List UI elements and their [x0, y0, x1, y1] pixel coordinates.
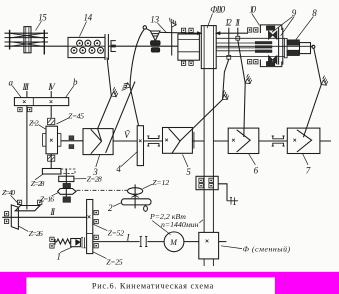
pointer Z45	[56, 118, 69, 124]
variator row axis segments	[113, 140, 331, 142]
svg-text:11: 11	[235, 17, 241, 27]
svg-text:III: III	[22, 82, 30, 92]
svg-text:1: 1	[57, 251, 62, 261]
pointer 1	[60, 247, 72, 252]
variator box 6	[228, 128, 259, 153]
worm gearbox on shaft IV	[46, 126, 58, 154]
belt from cone 13 down to drum 4	[130, 29, 144, 126]
cone pulley lower block	[151, 41, 160, 45]
pointer Z12	[143, 184, 153, 189]
pointer 8	[295, 17, 313, 41]
shaft I coupling	[140, 237, 148, 247]
collar on shaft after box 5	[193, 132, 195, 149]
chuck side stub	[219, 241, 227, 243]
clutch housing 10 bottom	[260, 60, 281, 67]
svg-text:Z=25: Z=25	[106, 257, 122, 266]
gear pair bar on shafts III and IV	[14, 98, 68, 106]
pointer to label 6	[249, 154, 256, 165]
pointer 13	[158, 23, 167, 33]
anchor pivot A1	[108, 87, 119, 98]
sliding gear Z=28 on shaft IV	[42, 169, 61, 175]
tension block below wire	[151, 48, 159, 52]
pointer 10	[252, 14, 260, 26]
svg-text:Z=2: Z=2	[29, 119, 39, 128]
clutch housing 10 top	[260, 25, 281, 33]
variator box 5	[163, 128, 193, 154]
pointer 2	[113, 203, 122, 207]
bearings right of double gear	[94, 210, 98, 214]
svg-text:Z=28: Z=28	[87, 174, 102, 183]
pointer 14	[80, 22, 87, 37]
pointer a	[12, 86, 21, 98]
belt line cone to pulley F110	[160, 31, 248, 34]
claw coupling 6-7	[272, 136, 285, 146]
shaft IV stub above	[50, 91, 52, 98]
pointer to label 5	[183, 154, 189, 167]
motor line to spindle	[184, 241, 199, 243]
cone pulley 13	[146, 29, 151, 32]
brake rod from bracket	[218, 184, 227, 201]
friction device 1 spring	[55, 239, 71, 245]
spindle below chuck	[204, 259, 213, 266]
gear Z=28 lower	[59, 176, 74, 181]
svg-text:a: a	[9, 78, 14, 88]
straightener roller right	[43, 30, 45, 55]
pointer Z16	[52, 192, 59, 196]
sprocket Z=16	[58, 189, 77, 195]
svg-text:10: 10	[249, 4, 256, 14]
shaft III vertical	[26, 106, 28, 210]
cone disc upper 9	[268, 31, 277, 40]
clutch shaft lines	[216, 38, 313, 56]
variator control lever of box 3	[106, 82, 135, 153]
svg-text:13: 13	[150, 14, 159, 24]
svg-text:Рис.6. Кинематическая схема: Рис.6. Кинематическая схема	[92, 282, 214, 291]
pointer Z28 right	[74, 178, 86, 180]
svg-text:IV: IV	[47, 82, 56, 92]
link roller box to variator 3	[98, 58, 112, 142]
worm Z=2 upper	[48, 118, 55, 124]
pointer Z2	[38, 125, 46, 130]
pointer to label 7	[303, 154, 309, 165]
brake screw symbol	[227, 197, 238, 204]
pointer b	[66, 85, 75, 97]
svg-text:b: b	[73, 77, 78, 87]
svg-text:Z=52: Z=52	[108, 228, 124, 237]
block under sprocket	[63, 197, 71, 203]
svg-text:12: 12	[225, 17, 232, 27]
clutch 8 end bar	[285, 38, 288, 57]
shaft II	[2, 216, 86, 218]
double gear Z=52 / Z=25	[87, 200, 93, 254]
feed drum 4	[137, 126, 143, 166]
pressure plate pins	[81, 237, 86, 248]
bevel mesh cross	[131, 194, 138, 198]
outlet clamp bottom	[111, 47, 116, 52]
friction device 1 block	[71, 239, 81, 247]
outlet clamp top	[111, 41, 116, 46]
svg-text:Z=40: Z=40	[2, 188, 15, 197]
gearbox side tabs	[43, 134, 46, 147]
svg-text:II: II	[49, 207, 56, 217]
handwheel 2	[121, 199, 151, 205]
bearings under bar	[18, 107, 22, 111]
svg-text:Z=45: Z=45	[68, 111, 84, 120]
clutch 8 sleeve	[300, 43, 311, 54]
shaft III stub above	[26, 91, 28, 98]
spindle head housing	[178, 34, 200, 60]
chain axis dash-dot	[77, 189, 128, 191]
clutch 8 spring bottom	[287, 50, 299, 55]
svg-text:5: 5	[186, 167, 191, 177]
roller feed box 14	[68, 37, 105, 57]
pointer Z28 left	[35, 174, 43, 180]
feed rollers top row	[77, 40, 101, 46]
layshaft coupling block	[63, 183, 71, 188]
pulley F110	[201, 26, 216, 69]
caption magenta band	[0, 272, 339, 294]
shaft IV vertical	[50, 106, 52, 118]
shifter rod 11	[237, 28, 239, 37]
pointer 15	[36, 21, 42, 31]
outlet guide rollers	[105, 34, 108, 60]
phantom gear position	[61, 169, 75, 174]
electric motor M	[164, 232, 184, 252]
wire stock coil 15 : horizontal wires	[5, 33, 49, 46]
pointer F smenny	[221, 246, 242, 249]
friction device 1 bearings	[50, 237, 54, 241]
anchor pivot A3	[219, 90, 230, 102]
output shaft to variator 3	[61, 140, 83, 142]
svg-text:8: 8	[312, 8, 317, 18]
svg-text:I: I	[126, 232, 131, 242]
chuck housing (smennyi)	[199, 232, 219, 259]
wire braid crossings	[9, 33, 44, 46]
feed rollers bottom row	[71, 47, 104, 53]
motor shaft I	[93, 241, 164, 243]
svg-text:Z=12: Z=12	[152, 178, 169, 187]
pointer 9 double	[272, 17, 294, 36]
svg-text:М: М	[169, 238, 178, 247]
post with anchor A6	[171, 27, 173, 56]
pointer 4	[121, 151, 138, 166]
svg-text:Ф (сменный): Ф (сменный)	[243, 245, 291, 254]
worm lower	[48, 155, 55, 161]
svg-text:Ṽ: Ṽ	[124, 130, 131, 140]
shaft II left bearings	[4, 212, 8, 216]
svg-text:6: 6	[254, 166, 259, 176]
wire line to head	[108, 45, 177, 47]
clutch pack 9	[255, 41, 272, 53]
svg-text:15: 15	[38, 12, 47, 22]
svg-text:Z=26: Z=26	[29, 229, 43, 238]
pointer Z40	[11, 195, 20, 205]
anchor pivot A2	[122, 82, 132, 93]
bevel gear Z=40 on shaft III	[15, 206, 40, 211]
clutch bearings left	[248, 28, 252, 32]
pointer motor label	[152, 221, 170, 235]
variator box 7	[287, 128, 320, 153]
svg-text:4: 4	[116, 164, 121, 174]
pointer Z26	[19, 226, 28, 231]
svg-text:9: 9	[292, 8, 297, 18]
anchor pivot A4	[242, 74, 253, 85]
head bearings	[181, 28, 185, 32]
pointer Z52	[93, 224, 107, 230]
pointer F110	[207, 14, 213, 29]
svg-text:7: 7	[306, 166, 311, 176]
straightener roller left	[9, 30, 11, 50]
cone disc lower 9	[268, 56, 277, 65]
svg-text:Z=28: Z=28	[31, 179, 45, 188]
bearings above bevel	[17, 200, 21, 204]
pressure plate	[279, 28, 283, 65]
shifter rod 12	[228, 28, 230, 56]
claw coupling 4-5	[147, 136, 160, 146]
claw coupling	[69, 136, 74, 140]
pointer Z25	[93, 252, 107, 259]
wire line to feed box	[48, 45, 68, 47]
layshaft vertical	[65, 169, 67, 202]
handwheel shaft	[134, 184, 136, 208]
svg-text:Ф110: Ф110	[210, 4, 225, 14]
bevel Z=12 on handwheel shaft	[128, 188, 143, 195]
caption white box	[26, 277, 274, 294]
anchor pivot A5	[318, 76, 329, 87]
rod end pivot	[312, 45, 315, 48]
spindle bearing bracket	[196, 176, 218, 189]
variator box 3	[83, 129, 113, 155]
svg-text:2: 2	[108, 203, 113, 213]
pointer to label 3	[96, 154, 100, 167]
spindle column	[204, 69, 213, 233]
svg-text:14: 14	[84, 12, 93, 22]
svg-text:n=1440мин: n=1440мин	[161, 220, 199, 229]
guide pulley 13	[143, 26, 146, 29]
control rod 8 to box 7	[303, 48, 321, 137]
drawing die 15	[24, 27, 31, 53]
crank handle	[144, 205, 146, 206]
bevel gear Z=26 on shaft II	[11, 205, 18, 229]
clutch 8 spring top	[287, 40, 299, 45]
svg-text:Z=16: Z=16	[40, 195, 54, 204]
superscript -1 tick	[199, 220, 203, 223]
